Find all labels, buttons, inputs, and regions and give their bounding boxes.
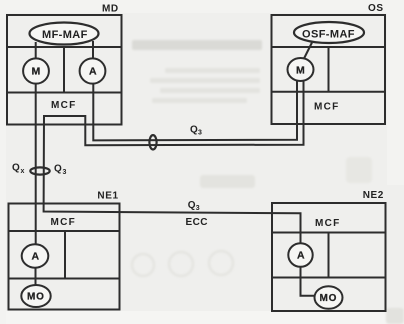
NE1 MCF bottom line [9,230,120,232]
wire Q3 MD-OS: MD A circle to OS M circle [93,81,297,140]
circle A (NE2) [288,243,312,267]
svg-text:Q: Q [54,164,62,175]
MD MCF top line [7,92,122,94]
circle MO (NE2) [315,286,343,309]
svg-text:M: M [296,65,305,77]
circle MO (NE1) [21,285,50,307]
ellipse MF-MAF [30,23,99,45]
circle M (OS) [288,58,314,81]
svg-text:NE2: NE2 [363,190,384,201]
OS vertical divider [328,47,330,92]
ellipse OSF-MAF [294,22,364,43]
interface marker ellipse on Qx/Q3 vertical pair [30,167,49,174]
ghost body text bleed-through [150,68,372,188]
svg-text:MCF: MCF [51,100,77,111]
circle M (MD) [23,58,49,83]
svg-text:MD: MD [102,4,119,15]
svg-text:3: 3 [196,205,200,212]
svg-text:MCF: MCF [51,217,77,228]
svg-text:NE1: NE1 [97,191,118,202]
box MD [7,15,122,125]
box NE2 [272,203,386,311]
svg-text:MO: MO [27,292,45,303]
bottom light margin [0,311,404,324]
circle A (NE1) [22,244,49,267]
wire A to MO (NE1) [35,268,37,285]
svg-text:M: M [32,66,41,78]
svg-text:MCF: MCF [315,218,341,229]
NE1 horizontal divider [9,278,120,280]
circle A (MD) [80,58,106,83]
NE2 horizontal divider [272,277,386,279]
svg-text:Q: Q [12,163,20,174]
wire Q3 long: OS M circle staircase to NE2 A circle [44,81,304,243]
MD internal line 1 [7,46,122,48]
wire A to MO (NE2) [301,267,315,296]
svg-text:MO: MO [320,293,338,304]
ghost headline bleed-through [132,40,262,50]
svg-text:MCF: MCF [314,102,340,113]
ghost circles bleed-through [132,251,233,276]
NE2 vertical divider [328,233,330,278]
svg-text:OS: OS [368,3,384,14]
bottom-right gray smudge [386,308,404,324]
svg-text:ECC: ECC [186,217,208,228]
box OS [272,15,386,124]
svg-text:A: A [297,250,305,262]
OS MCF top line [272,91,386,93]
svg-text:OSF-MAF: OSF-MAF [302,29,355,41]
svg-text:3: 3 [198,130,202,137]
svg-text:x: x [21,168,25,175]
svg-text:3: 3 [63,169,67,176]
svg-text:A: A [32,251,40,263]
MD vertical divider [63,47,65,93]
box NE1 [9,204,120,310]
wire MF-MAF to A [92,41,94,59]
NE1 vertical divider [64,231,66,279]
interface marker ellipse on Q3 horizontal pair [149,135,156,149]
svg-text:A: A [89,66,97,78]
wire MF-MAF to M [35,42,37,59]
OS internal line 1 [272,46,386,48]
NE2 MCF bottom line [272,232,386,234]
svg-text:MF-MAF: MF-MAF [42,29,88,41]
wire OSF-MAF to M diagonal [304,43,312,59]
wire Qx: MD M circle down to NE1 A circle [35,84,37,245]
